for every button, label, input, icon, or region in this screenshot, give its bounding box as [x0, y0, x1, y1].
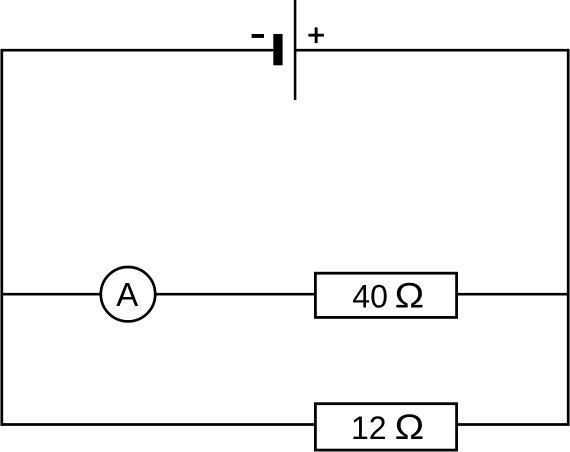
wire: bottom side, resistor R2 to right corner [457, 423, 568, 426]
battery B1 negative plate (short thick bar) [273, 34, 282, 65]
svg-text:40: 40 [352, 279, 388, 315]
wire: right side of loop [567, 49, 570, 426]
label: plus sign at battery positive terminal [308, 27, 324, 43]
svg-text:Ω: Ω [395, 407, 425, 446]
wire: middle branch, ammeter to resistor R1 [157, 293, 317, 296]
wire: left side of loop [0, 49, 3, 426]
label: minus sign at battery negative terminal [252, 34, 264, 38]
wire: bottom side, left corner to resistor R2 [2, 423, 316, 426]
svg-text:Ω: Ω [395, 276, 425, 315]
resistor R2 box (12 ohm) [315, 404, 456, 450]
svg-text:A: A [116, 276, 138, 313]
svg-text:12: 12 [351, 410, 387, 446]
wire: top side, battery positive to top-right corner [295, 49, 568, 52]
wire: top side, battery negative to top-left corner [2, 49, 274, 52]
battery B1 positive plate (long thin line) [294, 0, 297, 100]
ammeter A1 circle [101, 267, 155, 321]
resistor R1 box (40 ohm) [315, 273, 456, 317]
wire: middle branch, left side to ammeter [2, 293, 100, 296]
wire: middle branch, resistor R1 to right side [457, 293, 569, 296]
